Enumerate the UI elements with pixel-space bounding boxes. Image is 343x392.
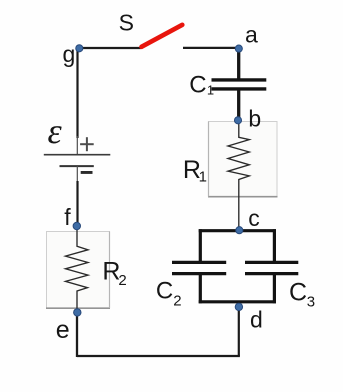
svg-text:2: 2	[118, 272, 126, 289]
top bus	[199, 229, 276, 232]
svg-text:f: f	[64, 204, 71, 230]
node d	[235, 303, 242, 310]
R2 box	[46, 232, 110, 309]
right vertical upper	[273, 229, 276, 261]
svg-text:e: e	[56, 316, 70, 344]
left vertical upper	[199, 229, 202, 261]
svg-text:g: g	[63, 41, 76, 67]
wire battery to node f	[76, 166, 78, 182]
node g	[76, 45, 83, 52]
resistor R1 zigzag	[228, 124, 249, 227]
svg-text:2: 2	[173, 292, 181, 309]
svg-text:1: 1	[207, 83, 214, 98]
svg-text:b: b	[248, 106, 261, 132]
wire C1 to node b	[237, 90, 240, 119]
parallel capacitor network frame	[172, 229, 298, 303]
node c	[236, 227, 243, 234]
svg-text:S: S	[119, 10, 134, 36]
svg-text:C: C	[289, 279, 307, 307]
battery top lead (thin)	[76, 136, 78, 155]
node a	[235, 45, 242, 52]
plus sign	[86, 137, 88, 151]
long plate	[44, 154, 111, 156]
left vertical lower	[199, 275, 202, 303]
battery EMF symbol	[44, 137, 111, 174]
capacitor C2 plates	[172, 261, 226, 264]
wire node d down	[238, 305, 240, 356]
bottom wire d to e	[77, 355, 240, 357]
wire e down to bottom	[76, 312, 78, 357]
wire a down to C1	[237, 48, 240, 79]
node e	[74, 309, 81, 316]
bottom bus	[199, 300, 276, 303]
node b	[234, 117, 241, 124]
node f	[73, 222, 80, 229]
svg-text:c: c	[248, 205, 259, 231]
minus sign	[81, 171, 93, 174]
svg-text:1: 1	[199, 168, 207, 185]
svg-text:3: 3	[307, 294, 315, 311]
right vertical lower	[273, 275, 276, 303]
svg-text:C: C	[189, 71, 206, 98]
resistor R2 zigzag	[66, 229, 89, 312]
svg-text:ε: ε	[48, 111, 63, 151]
wire switch to node a	[183, 47, 239, 49]
capacitor C1	[212, 80, 267, 89]
svg-text:a: a	[245, 22, 258, 48]
switch S red lever	[142, 25, 183, 47]
svg-text:d: d	[250, 306, 263, 332]
svg-text:C: C	[156, 278, 173, 305]
short plate	[60, 165, 94, 167]
wire g down to battery	[76, 48, 78, 138]
R1 box	[208, 122, 278, 197]
wire g to switch	[78, 47, 142, 49]
capacitor C3 plates	[245, 261, 298, 264]
